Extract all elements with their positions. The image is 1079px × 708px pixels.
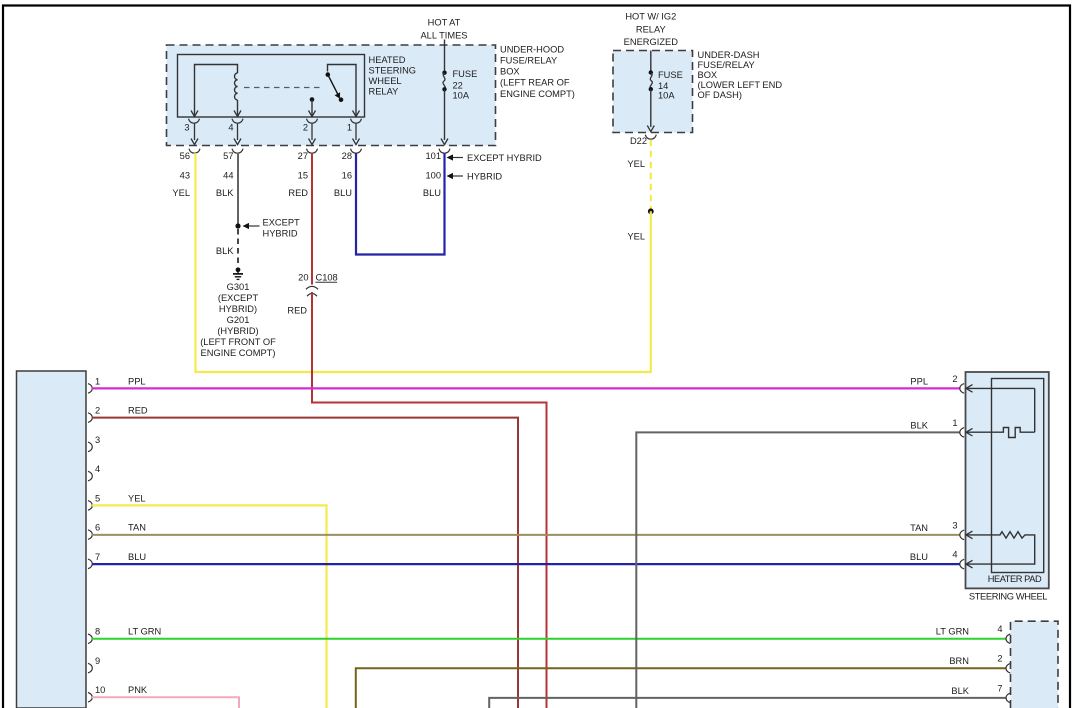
relay actuation dashed link: [244, 87, 322, 89]
svg-text:(LEFT FRONT OF: (LEFT FRONT OF: [200, 337, 276, 347]
svg-text:22: 22: [453, 81, 463, 91]
svg-text:3: 3: [95, 435, 100, 445]
svg-text:PPL: PPL: [910, 376, 928, 386]
ground label block: [200, 282, 276, 358]
svg-text:BOX: BOX: [698, 70, 718, 80]
svg-text:2: 2: [952, 374, 957, 384]
heater pad pin 2 labels: [910, 374, 957, 387]
svg-text:(HYBRID): (HYBRID): [217, 326, 258, 336]
svg-text:PPL: PPL: [128, 376, 146, 386]
pin 5 labels: [95, 493, 146, 503]
svg-text:YEL: YEL: [172, 188, 190, 198]
svg-text:43: 43: [180, 171, 190, 181]
svg-text:8: 8: [95, 627, 100, 637]
pin 7 arc: [88, 559, 92, 569]
svg-text:28: 28: [342, 151, 352, 161]
svg-text:G301: G301: [227, 282, 250, 292]
svg-text:D22: D22: [630, 136, 647, 146]
except hybrid callout arrow: [243, 217, 301, 238]
svg-text:BLK: BLK: [216, 246, 234, 256]
fuse 22 feed label: [420, 18, 467, 41]
svg-text:HOT W/ IG2: HOT W/ IG2: [625, 12, 676, 22]
relay label: [369, 55, 417, 97]
svg-text:G201: G201: [227, 315, 250, 325]
svg-text:BLU: BLU: [910, 552, 928, 562]
svg-text:YEL: YEL: [627, 232, 645, 242]
svg-text:LT GRN: LT GRN: [128, 627, 161, 637]
svg-text:ENERGIZED: ENERGIZED: [624, 37, 679, 47]
svg-text:PNK: PNK: [128, 685, 148, 695]
svg-text:UNDER-HOOD: UNDER-HOOD: [500, 45, 564, 55]
pin 1 labels: [95, 376, 146, 386]
splice node on yellow wire: [648, 208, 654, 214]
svg-text:BLK: BLK: [216, 188, 234, 198]
svg-text:C108: C108: [316, 272, 338, 282]
svg-text:YEL: YEL: [128, 493, 146, 503]
bottom connector pin 2 labels: [949, 654, 1002, 667]
wire BLK dashed to ground: [237, 229, 239, 265]
heater pad pin 3 labels: [910, 520, 957, 533]
svg-text:15: 15: [298, 171, 308, 181]
svg-text:2: 2: [303, 123, 308, 133]
under-dash feed label: [624, 12, 679, 48]
svg-text:3: 3: [184, 123, 189, 133]
under-dash box label: [698, 50, 783, 100]
relay pin 3 arrow: [191, 111, 198, 117]
pin 3 connector arc: [189, 119, 200, 124]
svg-text:OF DASH): OF DASH): [698, 90, 742, 100]
wire YEL from splice down-left to relay pin 56: [196, 153, 651, 372]
svg-text:YEL: YEL: [627, 159, 645, 169]
svg-text:9: 9: [95, 656, 100, 666]
thermal protector and pin 1 lead: [966, 428, 1035, 438]
svg-text:TAN: TAN: [910, 523, 928, 533]
pin 2 lead to box edge: [309, 124, 316, 145]
heater pad pin 1 arc: [960, 428, 964, 438]
bottom connector pin 2 arc: [1006, 663, 1010, 673]
left control module connector box: [17, 371, 87, 708]
svg-text:14: 14: [658, 81, 668, 91]
pin 3 lead to box edge: [191, 124, 198, 145]
svg-text:10A: 10A: [658, 91, 675, 101]
wire BLU pin7 to heater pad pin4: [92, 563, 960, 565]
svg-text:1: 1: [952, 418, 957, 428]
svg-text:RELAY: RELAY: [369, 87, 399, 97]
wire RED from relay pin 27 to C108: [311, 153, 313, 285]
fuse 14 value label: [658, 70, 683, 101]
relay pin 2 terminal dot: [310, 97, 315, 117]
heater element resistor: [966, 531, 1035, 568]
wire TAN pin6 to heater pad pin3: [92, 534, 960, 536]
svg-text:HYBRID: HYBRID: [263, 229, 298, 239]
svg-text:RED: RED: [287, 306, 307, 316]
under-hood box label: [500, 45, 575, 99]
svg-text:ENGINE COMPT): ENGINE COMPT): [500, 89, 575, 99]
svg-text:ENGINE COMPT): ENGINE COMPT): [201, 348, 276, 358]
wire BLK from relay pin 57: [237, 153, 239, 225]
pin 6 arc: [88, 530, 92, 540]
wire LT GRN pin8: [92, 638, 1006, 640]
pin 9 arc: [88, 663, 92, 673]
svg-text:7: 7: [95, 552, 100, 562]
under-hood fuse/relay box (dashed blue): [167, 45, 496, 146]
C108 labels: [287, 272, 337, 315]
wire YEL pin5: [92, 505, 327, 708]
pin 10 arc: [88, 693, 92, 703]
svg-text:7: 7: [997, 683, 1002, 693]
svg-text:HYBRID: HYBRID: [467, 172, 502, 182]
svg-text:10A: 10A: [453, 91, 470, 101]
svg-text:4: 4: [95, 464, 100, 474]
pin 5 arc: [88, 501, 92, 511]
svg-text:(LEFT REAR OF: (LEFT REAR OF: [500, 78, 570, 88]
svg-text:56: 56: [180, 151, 190, 161]
pin 4 lead to box edge: [234, 124, 241, 145]
svg-text:10: 10: [95, 685, 105, 695]
wire PPL pin1 to heater pad pin2: [92, 387, 960, 389]
svg-text:6: 6: [95, 523, 100, 533]
svg-text:BRN: BRN: [949, 656, 969, 666]
connector C108 symbol: [306, 286, 318, 296]
pin 6 labels: [95, 523, 146, 533]
svg-text:2: 2: [997, 654, 1002, 664]
wire BLK heater pad pin1: [636, 432, 960, 708]
pin 1 lead to box edge: [353, 124, 360, 145]
svg-text:2: 2: [95, 406, 100, 416]
wire RED from C108 down and right: [312, 292, 547, 708]
connector arcs under box: pin 56: [189, 149, 200, 154]
heated steering wheel relay outline: [178, 55, 365, 118]
svg-text:1: 1: [347, 123, 352, 133]
svg-text:EXCEPT: EXCEPT: [263, 217, 301, 227]
svg-text:LT GRN: LT GRN: [936, 627, 969, 637]
svg-text:44: 44: [223, 171, 233, 181]
pin 8 labels: [95, 627, 161, 637]
svg-text:BOX: BOX: [500, 67, 520, 77]
svg-text:EXCEPT HYBRID: EXCEPT HYBRID: [467, 153, 542, 163]
svg-text:HOT AT: HOT AT: [428, 18, 461, 28]
svg-text:HEATER PAD: HEATER PAD: [988, 574, 1042, 584]
relay pin 2 arrow: [309, 111, 316, 117]
pin 1 connector arc: [351, 119, 362, 124]
fuse 14: [647, 51, 654, 132]
pin 1 arc: [88, 384, 92, 394]
svg-text:27: 27: [298, 151, 308, 161]
svg-text:FUSE/RELAY: FUSE/RELAY: [500, 56, 557, 66]
connector arc pin 28: [351, 149, 362, 154]
svg-text:TAN: TAN: [128, 523, 146, 533]
wire color names row: [172, 188, 441, 198]
ground G301: [233, 267, 243, 279]
relay coil K1: [195, 65, 238, 118]
pin 4 arc: [88, 471, 92, 481]
bottom connector pin 4 arc: [1006, 634, 1010, 644]
steering wheel box: [966, 372, 1049, 588]
wire BLU relay pin 28 to pin 101: [356, 153, 445, 255]
bottom connector pin 7 labels: [951, 683, 1002, 696]
wire terminal numbers row 1: [180, 151, 441, 161]
hybrid callout at 100: [447, 172, 503, 182]
bottom connector pin 7 arc: [1006, 693, 1010, 703]
pin 3 arc: [88, 442, 92, 452]
svg-text:100: 100: [425, 171, 441, 181]
svg-text:16: 16: [342, 171, 352, 181]
svg-text:STEERING: STEERING: [369, 66, 417, 76]
pin 8 arc: [88, 634, 92, 644]
svg-text:BLK: BLK: [951, 686, 969, 696]
fuse 22: [441, 40, 448, 145]
heater pad pin 2 arc: [960, 384, 964, 394]
bottom connector pin 4 labels: [936, 624, 1003, 637]
fuse 22 value label: [453, 69, 478, 101]
svg-text:4: 4: [952, 550, 957, 560]
svg-text:4: 4: [997, 624, 1002, 634]
wire BRN to bottom connector pin2: [356, 668, 1006, 708]
svg-text:3: 3: [952, 520, 957, 530]
heater pad pin 3 arc: [960, 530, 964, 540]
svg-text:1: 1: [95, 376, 100, 386]
svg-text:HEATED: HEATED: [369, 55, 406, 65]
relay pin 4 arrow: [234, 111, 241, 117]
svg-text:BLK: BLK: [910, 420, 928, 430]
connector arc pin 101: [439, 149, 450, 154]
except hybrid callout at 101: [447, 153, 543, 163]
svg-text:101: 101: [425, 151, 441, 161]
pin 2 labels: [95, 406, 148, 416]
svg-text:4: 4: [228, 123, 233, 133]
svg-text:FUSE: FUSE: [453, 69, 478, 79]
svg-text:HYBRID): HYBRID): [219, 304, 257, 314]
connector arc D22: [645, 135, 656, 140]
heater pad pin 1 labels: [910, 418, 957, 431]
svg-text:BLU: BLU: [423, 188, 441, 198]
pin 7 labels: [95, 552, 146, 562]
svg-text:57: 57: [223, 151, 233, 161]
junction node except-hybrid: [235, 223, 240, 228]
bottom-right connector box (dashed blue): [1011, 621, 1059, 708]
svg-text:20: 20: [298, 272, 308, 282]
svg-text:RED: RED: [288, 188, 308, 198]
svg-text:(LOWER LEFT END: (LOWER LEFT END: [698, 80, 783, 90]
wire YEL dashed from D22: [650, 140, 652, 210]
heater pad pin 4 arc: [960, 559, 964, 569]
wire PNK pin10: [92, 697, 239, 708]
connector arc pin 27: [307, 149, 318, 154]
svg-text:RED: RED: [128, 406, 148, 416]
svg-text:RELAY: RELAY: [636, 25, 666, 35]
svg-text:FUSE/RELAY: FUSE/RELAY: [698, 60, 755, 70]
pin 4 connector arc: [232, 119, 243, 124]
wire BLK to bottom connector pin7: [489, 698, 1006, 708]
pin 2 connector arc: [307, 119, 318, 124]
svg-text:FUSE: FUSE: [658, 70, 683, 80]
svg-text:ALL TIMES: ALL TIMES: [420, 31, 467, 41]
svg-text:UNDER-DASH: UNDER-DASH: [698, 50, 760, 60]
relay pin numbers: [184, 123, 352, 133]
connector arc pin 57: [232, 149, 243, 154]
relay pin 1 arrow: [353, 111, 360, 117]
svg-text:BLU: BLU: [128, 552, 146, 562]
svg-text:WHEEL: WHEEL: [369, 76, 402, 86]
svg-text:5: 5: [95, 493, 100, 503]
heater pad inner box: [992, 379, 1044, 573]
wire terminal numbers row 2: [180, 171, 441, 181]
relay switch contact: [326, 65, 357, 118]
svg-text:(EXCEPT: (EXCEPT: [218, 293, 259, 303]
under-dash fuse/relay box (dashed blue): [613, 51, 693, 133]
pin 2 arc: [88, 413, 92, 423]
heater pad pin 2 internal lead: [966, 385, 1035, 433]
svg-text:BLU: BLU: [334, 188, 352, 198]
wire RED pin2 down at right: [92, 418, 518, 708]
pin 10 labels: [95, 685, 148, 695]
heater pad pin 4 labels: [910, 550, 958, 563]
svg-text:STEERING WHEEL: STEERING WHEEL: [969, 591, 1047, 601]
